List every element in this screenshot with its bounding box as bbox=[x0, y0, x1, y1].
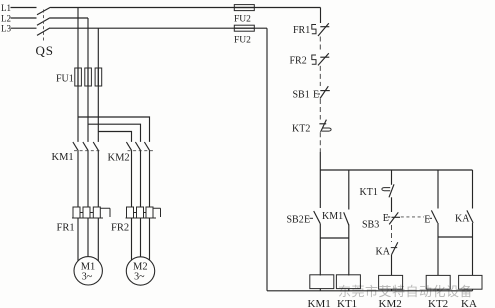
svg-text:QS: QS bbox=[36, 43, 54, 58]
svg-text:L3: L3 bbox=[1, 24, 11, 34]
svg-text:FU1: FU1 bbox=[56, 74, 74, 85]
svg-text:KA: KA bbox=[455, 214, 470, 225]
svg-text:KA: KA bbox=[461, 298, 477, 308]
svg-text:FR2: FR2 bbox=[111, 223, 129, 234]
svg-text:E: E bbox=[304, 215, 310, 226]
svg-text:KM1: KM1 bbox=[322, 211, 343, 222]
svg-text:3~: 3~ bbox=[134, 272, 145, 283]
svg-text:SB1: SB1 bbox=[293, 90, 310, 101]
svg-text:L1: L1 bbox=[1, 3, 11, 13]
svg-text:KT1: KT1 bbox=[337, 298, 357, 308]
svg-text:L2: L2 bbox=[1, 14, 11, 24]
svg-text:KT2: KT2 bbox=[292, 124, 310, 135]
svg-text:E: E bbox=[313, 90, 319, 101]
svg-text:E: E bbox=[424, 215, 430, 226]
svg-text:FR2: FR2 bbox=[290, 56, 307, 67]
svg-text:SB2: SB2 bbox=[287, 215, 304, 226]
svg-text:FU2: FU2 bbox=[234, 15, 251, 25]
svg-text:KM1: KM1 bbox=[308, 298, 331, 308]
svg-text:FR1: FR1 bbox=[293, 25, 310, 36]
svg-text:KA: KA bbox=[376, 247, 391, 258]
svg-text:SB3: SB3 bbox=[362, 220, 379, 231]
svg-text:KT1: KT1 bbox=[360, 187, 378, 198]
svg-text:FR1: FR1 bbox=[57, 223, 75, 234]
svg-text:KM1: KM1 bbox=[52, 152, 74, 163]
svg-text:东莞市艾特自动化设备: 东莞市艾特自动化设备 bbox=[338, 284, 473, 299]
svg-text:KM2: KM2 bbox=[108, 153, 130, 164]
svg-text:FU2: FU2 bbox=[234, 36, 251, 46]
svg-text:3~: 3~ bbox=[82, 272, 93, 283]
svg-text:KT2: KT2 bbox=[428, 298, 448, 308]
svg-text:E: E bbox=[383, 213, 389, 224]
svg-text:KM2: KM2 bbox=[379, 298, 402, 308]
